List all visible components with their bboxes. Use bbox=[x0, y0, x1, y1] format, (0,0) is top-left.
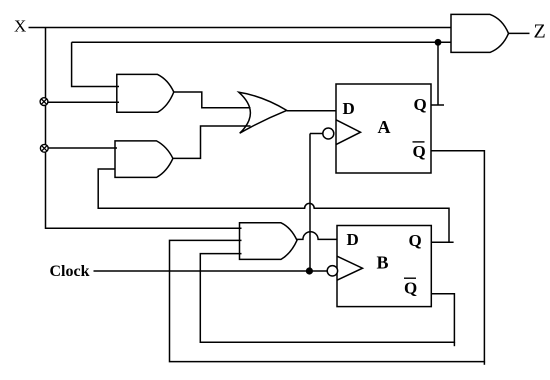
wire QB output stub bbox=[431, 241, 453, 243]
svg-text:D: D bbox=[347, 230, 359, 249]
svg-text:A: A bbox=[378, 117, 391, 137]
wire overshoot at QbarB corner bbox=[453, 342, 455, 346]
wire X vertical drop and run to AND3 input 1 bbox=[46, 28, 242, 229]
svg-text:Q: Q bbox=[409, 231, 422, 250]
flip-flop A box bbox=[336, 84, 431, 173]
wire QbarB feedback to AND3 input 3 bbox=[200, 254, 454, 343]
svg-text:Q: Q bbox=[413, 142, 426, 161]
svg-text:D: D bbox=[343, 99, 355, 118]
wire AND2 output to OR input 2 bbox=[173, 126, 251, 158]
wire QA feedback left leg into AND1 input 1 bbox=[72, 42, 119, 86]
svg-text:Q: Q bbox=[414, 95, 427, 114]
wire clock stub into A bubble bbox=[310, 133, 323, 135]
wire QA feedback horizontal (to Z gate input 2 and AND1 input 1) bbox=[72, 41, 451, 43]
node junction X/AND2 bbox=[40, 144, 48, 152]
svg-text:X: X bbox=[14, 17, 26, 36]
wire QA output stub bbox=[431, 104, 444, 106]
wire junction down to QA output bbox=[437, 42, 439, 105]
AND gate Z output gate bbox=[451, 14, 509, 52]
wire X horizontal bus to Z gate input 1 bbox=[29, 27, 452, 29]
node junction X/AND1 bbox=[40, 98, 48, 106]
node junction Clock/riser bbox=[306, 267, 313, 274]
OR gate bbox=[239, 92, 287, 133]
svg-text:Z: Z bbox=[534, 21, 546, 43]
wire AND1 output to OR input 1 bbox=[174, 92, 251, 108]
clock edge triangle B bbox=[337, 256, 363, 280]
wire Z output bbox=[509, 32, 530, 34]
svg-text:Q: Q bbox=[404, 279, 417, 298]
wire X to AND1 input 2 bbox=[46, 101, 120, 103]
wire Clock horizontal bbox=[94, 270, 328, 272]
clock edge triangle A bbox=[336, 120, 361, 145]
wire QbarA feedback loop to AND3 input 2 bbox=[170, 151, 485, 362]
AND gate AND2 bbox=[115, 141, 173, 178]
clock bubble B bbox=[327, 266, 337, 276]
wire X to AND2 input 1 bbox=[46, 147, 118, 149]
svg-text:B: B bbox=[377, 253, 389, 273]
wire clock vertical riser bbox=[309, 134, 311, 272]
wire OR output to D of flip-flop A bbox=[287, 110, 336, 112]
AND gate AND1 bbox=[117, 74, 174, 112]
node junction QA/Z bbox=[435, 39, 442, 46]
wire overshoot at QbarA corner bbox=[483, 362, 485, 365]
wire QB feedback to AND2 input 2 with hop over clock riser bbox=[98, 169, 449, 242]
AND gate AND3 bbox=[240, 223, 298, 260]
svg-text:Clock: Clock bbox=[50, 263, 90, 280]
flip-flop B box bbox=[337, 226, 431, 307]
clock bubble A bbox=[323, 128, 334, 139]
wire AND3 output to D of B with hop over clock riser bbox=[297, 232, 337, 240]
